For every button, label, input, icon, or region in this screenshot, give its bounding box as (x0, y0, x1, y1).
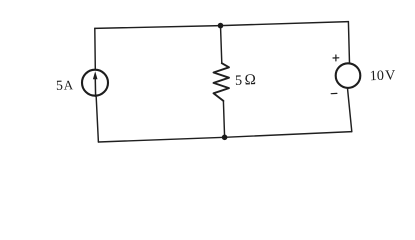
svg-text:A: A (63, 77, 73, 92)
svg-text:Ω: Ω (244, 71, 256, 88)
svg-text:5: 5 (56, 78, 63, 93)
svg-text:V: V (385, 67, 397, 83)
svg-text:10: 10 (370, 68, 385, 84)
svg-text:5: 5 (235, 73, 243, 89)
